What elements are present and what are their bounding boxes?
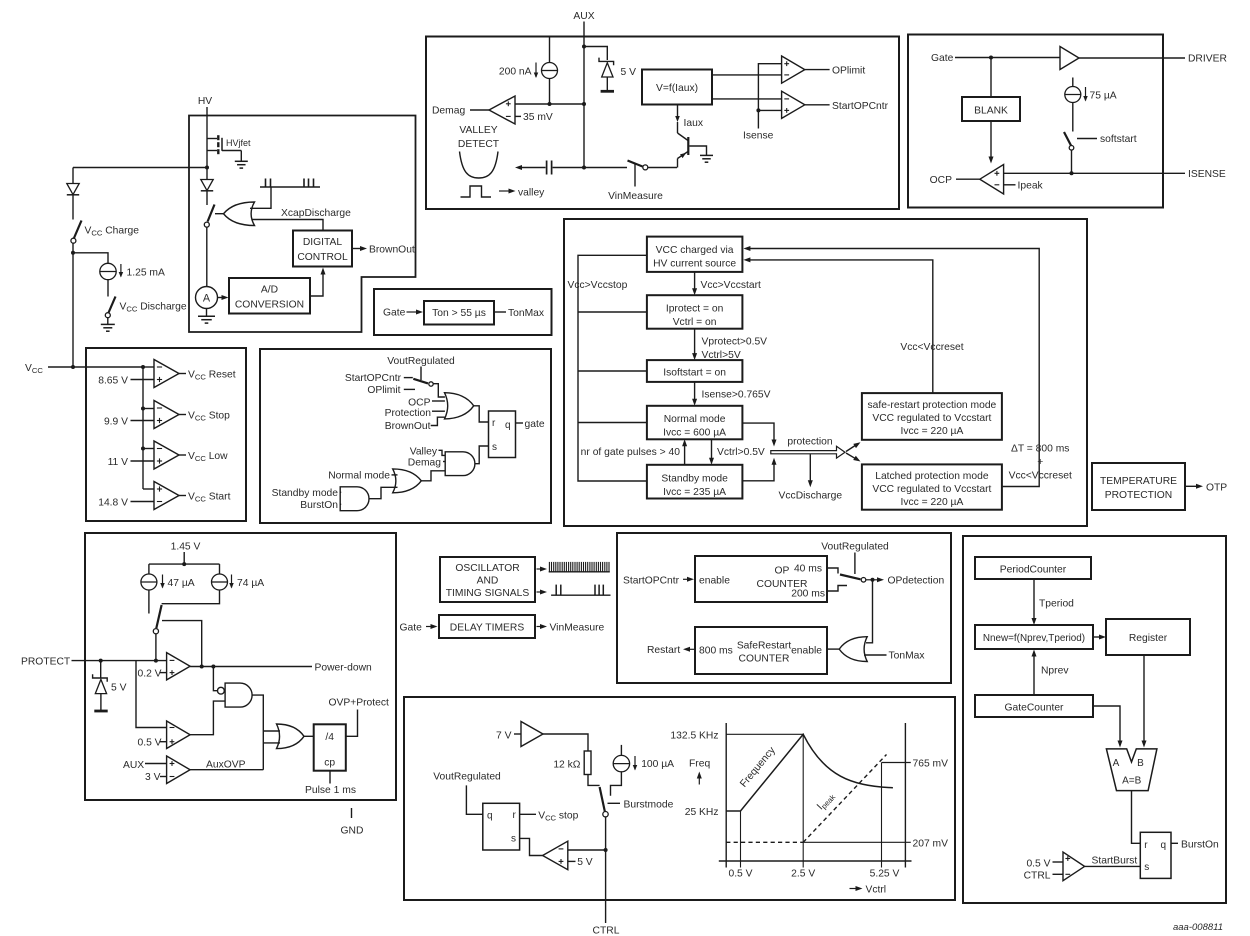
- svg-text:VccDischarge: VccDischarge: [779, 491, 843, 502]
- svg-text:Isense>0.765V: Isense>0.765V: [702, 390, 771, 401]
- svg-text:XcapDischarge: XcapDischarge: [281, 208, 351, 219]
- wire source to VCC Discharge switch: [107, 280, 109, 297]
- svg-text:Nprev: Nprev: [1041, 666, 1069, 677]
- wire pd to nand: [213, 667, 217, 691]
- wire 3V stub: [160, 776, 167, 778]
- graph axis right: [904, 723, 906, 868]
- svg-text:Protection: Protection: [385, 408, 432, 419]
- svg-text:Freq: Freq: [689, 758, 710, 769]
- wire q burston: [1171, 842, 1178, 844]
- svg-text:Pulse 1 ms: Pulse 1 ms: [305, 785, 356, 796]
- wire vinmeasure left arrow: [522, 167, 546, 169]
- svg-text:softstart: softstart: [1100, 134, 1137, 145]
- block TEMPERATURE PROTECTION: [1092, 463, 1185, 510]
- wire ammeter to A/D: [218, 297, 223, 299]
- arrow delay out: [537, 626, 542, 628]
- svg-text:ISENSE: ISENSE: [1188, 169, 1226, 180]
- wire burst switch to ctrl: [605, 817, 607, 923]
- comparator U-AuxOVP: [167, 756, 191, 784]
- resistor 12 kOhm: [584, 751, 591, 775]
- svg-text:Ivcc = 600 µA: Ivcc = 600 µA: [663, 428, 726, 439]
- comparator U-OCP (points left): [980, 165, 1004, 195]
- ground transistor base: [700, 154, 713, 156]
- node protect zener: [99, 659, 103, 663]
- svg-text:12 kΩ: 12 kΩ: [553, 760, 580, 771]
- block Nnew: [975, 625, 1093, 649]
- svg-text:Vctrl = on: Vctrl = on: [673, 317, 717, 328]
- svg-text:OCP: OCP: [930, 175, 952, 186]
- svg-text:VALLEY: VALLEY: [459, 125, 497, 136]
- or-gate U-reset: [445, 393, 474, 419]
- block Ton > 55 us: [424, 301, 494, 325]
- arrow gate to Ton: [407, 311, 418, 313]
- wire switch to ammeter: [206, 227, 208, 286]
- wire register to B: [1143, 655, 1145, 742]
- comparator U-0.5V: [167, 721, 191, 749]
- svg-text:BLANK: BLANK: [974, 106, 1008, 117]
- wire ISENSE: [1004, 172, 1185, 174]
- wire OR output to switch blade: [215, 213, 224, 215]
- svg-text:StartBurst: StartBurst: [1092, 856, 1138, 867]
- node stop tap: [141, 407, 145, 411]
- wire standby to protection: [742, 463, 774, 481]
- block DELAY TIMERS: [439, 615, 535, 638]
- arrow startop enable: [683, 578, 688, 580]
- comparator U-0.2V (power-down): [167, 653, 191, 680]
- svg-text:Burstmode: Burstmode: [624, 799, 674, 810]
- wire cap to switch: [553, 167, 627, 169]
- svg-text:A: A: [1113, 758, 1120, 769]
- current arrow 100uA: [634, 756, 636, 770]
- svg-text:AUX: AUX: [123, 760, 144, 771]
- node isense softstart: [1070, 171, 1074, 175]
- wire state3 to state4: [694, 382, 696, 401]
- wire OPlimit stub: [404, 388, 415, 390]
- svg-text:HV current source: HV current source: [653, 259, 736, 270]
- flip-flop burston latch: [1140, 832, 1171, 878]
- wire 9.9V to plus: [131, 420, 155, 422]
- svg-text:0.5 V: 0.5 V: [1026, 858, 1050, 869]
- svg-text:Isense: Isense: [743, 131, 774, 142]
- wire base to ground: [689, 146, 706, 155]
- wire state1 to state2: [694, 272, 696, 290]
- wire 7V to buffer: [514, 733, 521, 735]
- svg-text:Standby mode: Standby mode: [661, 474, 728, 485]
- svg-text:TEMPERATURE: TEMPERATURE: [1100, 476, 1177, 487]
- svg-text:q: q: [487, 811, 493, 822]
- pin GND tick: [351, 808, 353, 818]
- wire Isense to startop plus: [758, 109, 781, 111]
- svg-text:8.65 V: 8.65 V: [98, 375, 128, 386]
- svg-text:A=B: A=B: [1122, 776, 1142, 787]
- wire A=B to flipflop r: [1132, 791, 1141, 844]
- arrow gate to delay: [426, 626, 432, 628]
- svg-text:/4: /4: [325, 732, 334, 743]
- wire 0.5V comp to nand: [190, 701, 225, 735]
- wire softstart label: [1077, 138, 1097, 140]
- wire 35mV stub: [515, 115, 521, 117]
- node charge branch: [71, 251, 75, 255]
- svg-text:VinMeasure: VinMeasure: [550, 622, 605, 633]
- burst counter block outline: [963, 536, 1226, 903]
- switch VinMeasure: [628, 161, 648, 170]
- svg-text:Gate: Gate: [383, 308, 406, 319]
- label VALLEY DETECT: [458, 125, 500, 150]
- wire ovp to OR: [190, 769, 263, 771]
- AUX block outline: [426, 37, 899, 210]
- svg-text:765 mV: 765 mV: [913, 759, 949, 770]
- wire voutreg control: [854, 553, 856, 575]
- current arrow 200 nA: [535, 63, 537, 78]
- svg-text:Normal mode: Normal mode: [328, 470, 390, 481]
- OP counter block outline: [617, 533, 951, 683]
- svg-text:Register: Register: [1129, 633, 1168, 644]
- svg-text:OSCILLATOR: OSCILLATOR: [455, 563, 519, 574]
- state machine block outline: [564, 219, 1087, 526]
- svg-text:OCP: OCP: [408, 397, 430, 408]
- wire powerdown output: [190, 666, 312, 668]
- wire voutregulated to q: [466, 785, 482, 814]
- HV startup block outline: [189, 116, 416, 333]
- wire resistor to burst switch: [588, 775, 600, 786]
- VCC comparator block outline: [86, 348, 246, 521]
- state Isoftstart on: [647, 360, 743, 382]
- current source 1.25 mA: [100, 263, 116, 279]
- comparator U-StartOPCntr: [782, 91, 805, 118]
- comparator U-OPlimit: [782, 56, 805, 83]
- wire PROTECT input: [72, 660, 167, 662]
- block PeriodCounter: [975, 557, 1091, 579]
- svg-text:enable: enable: [791, 645, 822, 656]
- state safe-restart protection mode: [862, 393, 1002, 440]
- wire Protection to OR: [432, 410, 445, 412]
- node AUX comparator branch: [582, 102, 586, 106]
- graph 765mV level: [882, 762, 911, 764]
- wire XcapDischarge from digital control: [252, 220, 324, 231]
- burst mode block outline: [404, 697, 955, 900]
- protect block outline: [85, 533, 396, 800]
- svg-text:VinMeasure: VinMeasure: [608, 191, 663, 202]
- buffer U-7V: [521, 722, 543, 747]
- svg-text:A/D: A/D: [261, 285, 278, 296]
- block Register: [1106, 619, 1190, 655]
- svg-text:VCC Low: VCC Low: [188, 451, 228, 463]
- wire OCP to OR: [432, 400, 445, 402]
- node OPdetection: [871, 578, 875, 582]
- svg-text:OPlimit: OPlimit: [367, 385, 400, 396]
- block V=f(Iaux): [642, 70, 712, 105]
- wire nnew to register: [1093, 636, 1101, 638]
- or-gate U-restart (pointing left): [839, 637, 867, 662]
- svg-text:9.9 V: 9.9 V: [104, 416, 128, 427]
- svg-text:VCC charged via: VCC charged via: [656, 245, 734, 256]
- wire switch to transistor: [648, 167, 677, 169]
- wire Valley to AND: [439, 450, 446, 455]
- wire or inputs: [263, 730, 280, 732]
- svg-text:Vcc<Vccreset: Vcc<Vccreset: [1009, 471, 1072, 482]
- wire Demag output: [470, 109, 489, 111]
- wire zener branch protect: [100, 661, 102, 678]
- ammeter A: [196, 287, 218, 309]
- wire opdetect arrow: [866, 579, 878, 581]
- svg-text:StartOPCntr: StartOPCntr: [623, 575, 680, 586]
- svg-text:B: B: [1137, 758, 1144, 769]
- zener diode 5V (protect): [93, 674, 108, 711]
- svg-text:BurstOn: BurstOn: [300, 500, 338, 511]
- svg-text:Gate: Gate: [400, 622, 423, 633]
- wire switch to isense: [1071, 150, 1073, 173]
- svg-text:0.5 V: 0.5 V: [138, 737, 162, 748]
- current arrow 1.25 mA: [120, 264, 122, 277]
- switch VCC Charge: [71, 221, 82, 244]
- svg-text:q: q: [1161, 840, 1167, 851]
- node protect switch: [154, 659, 158, 663]
- svg-text:cp: cp: [324, 758, 335, 769]
- wire rail to 74uA: [219, 564, 221, 574]
- svg-text:VoutRegulated: VoutRegulated: [821, 542, 889, 553]
- svg-text:14.8 V: 14.8 V: [98, 497, 128, 508]
- svg-text:PROTECT: PROTECT: [21, 657, 71, 668]
- svg-text:DIGITAL: DIGITAL: [303, 237, 343, 248]
- block DIGITAL CONTROL: [293, 231, 352, 267]
- svg-text:SafeRestart: SafeRestart: [737, 641, 792, 652]
- svg-text:Iaux: Iaux: [684, 118, 704, 129]
- node VCC comparator bus: [141, 365, 145, 369]
- and-gate U-standby: [340, 487, 369, 511]
- wire A/D to digital control: [310, 272, 323, 296]
- wire fork to latched: [846, 453, 858, 460]
- zener diode 5V (aux): [599, 58, 614, 92]
- or-gate U-mode: [393, 469, 422, 493]
- wire stop output: [179, 414, 186, 416]
- wire state2 to state3: [694, 329, 696, 355]
- svg-text:Standby mode: Standby mode: [272, 488, 339, 499]
- wire start output: [179, 495, 186, 497]
- svg-text:safe-restart protection mode: safe-restart protection mode: [868, 400, 997, 411]
- svg-text:StartOPCntr: StartOPCntr: [832, 101, 889, 112]
- wire 0.2V stub: [160, 672, 167, 674]
- buffer U-driver: [1060, 47, 1079, 70]
- svg-text:VCC stop: VCC stop: [538, 810, 578, 822]
- wire 8.65V to plus: [131, 379, 155, 381]
- wire burstmode label: [608, 802, 621, 804]
- wire Vf out to OPlimit minus: [712, 74, 782, 76]
- wire StartOPCntr stub: [404, 377, 413, 379]
- wire BrownOut output: [352, 248, 361, 250]
- wire Standby to AND: [340, 491, 342, 493]
- svg-text:OP: OP: [775, 566, 790, 577]
- wire AUX to ovp comp: [145, 763, 167, 765]
- wire normal to protection: [742, 423, 774, 441]
- svg-text:Nnew=f(Nprev,Tperiod): Nnew=f(Nprev,Tperiod): [983, 633, 1085, 644]
- driver block outline: [908, 35, 1163, 208]
- block SafeRestart COUNTER: [695, 627, 827, 674]
- svg-text:VCC regulated to Vccstart: VCC regulated to Vccstart: [872, 484, 991, 495]
- svg-text:2.5 V: 2.5 V: [791, 869, 815, 880]
- svg-text:Power-down: Power-down: [315, 662, 373, 673]
- wire mode OR to AND: [421, 471, 445, 481]
- wire periodcounter to nnew: [1033, 579, 1035, 620]
- wire pulse detect to OR gate: [250, 187, 271, 208]
- svg-text:Ivcc = 220 µA: Ivcc = 220 µA: [900, 497, 963, 508]
- svg-text:Vcc>Vccstart: Vcc>Vccstart: [701, 280, 762, 291]
- wire blade to output node: [162, 621, 202, 667]
- svg-text:gate: gate: [525, 419, 545, 430]
- wire ctrl to 5V comp: [568, 849, 606, 851]
- protection hollow arrow: [771, 446, 845, 458]
- svg-text:35 mV: 35 mV: [523, 112, 553, 123]
- node AUX vinmeasure: [582, 166, 586, 170]
- svg-text:5 V: 5 V: [577, 857, 593, 868]
- svg-text:OVP+Protect: OVP+Protect: [329, 698, 390, 709]
- ground under ammeter: [206, 309, 208, 317]
- svg-text:enable: enable: [699, 575, 730, 586]
- svg-text:Tperiod: Tperiod: [1039, 599, 1074, 610]
- wire 1.45V feed: [183, 552, 185, 564]
- pulse train symbol (X-cap pulses): [260, 179, 320, 188]
- svg-text:+: +: [1037, 457, 1043, 468]
- state Standby mode: [647, 465, 743, 499]
- svg-text:CTRL: CTRL: [1024, 871, 1051, 882]
- wire 40ms contact: [827, 568, 838, 574]
- wire 74uA to switch contact: [162, 590, 220, 604]
- wire stop tap state4: [578, 422, 647, 424]
- wire OPlimit output: [805, 69, 830, 71]
- svg-text:VoutRegulated: VoutRegulated: [433, 772, 501, 783]
- wire 5V stub: [568, 860, 576, 862]
- graph frequency curve: [726, 734, 893, 811]
- svg-text:132.5 KHz: 132.5 KHz: [670, 730, 718, 741]
- switch mode select: [413, 379, 433, 386]
- current arrow 47uA: [162, 575, 164, 588]
- block /4 counter: [314, 724, 346, 770]
- wire OTP output: [1185, 485, 1197, 487]
- wire Iaux: [677, 105, 679, 117]
- arrow osc out 2: [537, 591, 542, 593]
- svg-text:CONVERSION: CONVERSION: [235, 300, 304, 311]
- svg-text:Demag: Demag: [432, 106, 465, 117]
- current source 100 uA: [613, 755, 629, 771]
- wire stop tap state3: [578, 370, 647, 372]
- capacitor C-valley: [547, 161, 552, 175]
- current source 47 uA: [141, 574, 157, 590]
- svg-text:25 KHz: 25 KHz: [685, 807, 719, 818]
- wire latched return: [748, 249, 1039, 487]
- svg-text:StartOPCntr: StartOPCntr: [345, 373, 402, 384]
- wire demag plus input: [515, 103, 584, 105]
- svg-text:1.45 V: 1.45 V: [171, 542, 201, 553]
- svg-text:TonMax: TonMax: [889, 651, 926, 662]
- or-gate U-xcap (pointing left): [224, 202, 255, 226]
- wire pulse out: [329, 771, 331, 784]
- svg-text:TonMax: TonMax: [508, 308, 545, 319]
- svg-text:q: q: [505, 420, 511, 431]
- wire VccDischarge: [809, 454, 811, 481]
- wire 0.5V comp minus tap: [136, 661, 167, 728]
- state VCC charged via HV current source: [647, 237, 743, 272]
- svg-text:protection: protection: [787, 437, 832, 448]
- wire Normal mode to OR: [392, 474, 398, 476]
- svg-text:valley: valley: [518, 187, 545, 198]
- svg-text:Demag: Demag: [408, 457, 441, 468]
- wire diode to switch: [206, 191, 208, 205]
- nand input bubble: [218, 687, 225, 694]
- wire BrownOut to OR: [431, 417, 445, 425]
- current arrow 74uA: [231, 575, 233, 588]
- current source 200 nA: [542, 63, 558, 79]
- comparator U-VccReset: [154, 360, 179, 388]
- waveform clock comb: [549, 562, 610, 572]
- svg-text:Gate: Gate: [931, 53, 954, 64]
- svg-text:47 µA: 47 µA: [168, 578, 195, 589]
- svg-text:5 V: 5 V: [621, 67, 637, 78]
- wire to VCC charge chain: [73, 167, 207, 169]
- wire VCC to start plus: [143, 488, 154, 490]
- graph gridline 0.5V: [740, 811, 742, 868]
- wire down to diode D2: [72, 168, 74, 184]
- wire HV to HVjfet: [206, 107, 208, 139]
- wire OVP+Protect: [346, 710, 358, 737]
- svg-text:HVjfet: HVjfet: [226, 138, 251, 148]
- wire nand to OR: [252, 695, 263, 770]
- svg-text:207 mV: 207 mV: [913, 838, 949, 849]
- diode D1 (internal): [201, 180, 213, 191]
- comparator U-VccStart: [154, 482, 179, 510]
- wire switch to OR: [433, 384, 445, 397]
- graph tick 132.5k: [726, 733, 803, 735]
- wire 200ms contact: [827, 586, 847, 592]
- svg-text:40 ms: 40 ms: [794, 564, 822, 575]
- svg-text:1.25 mA: 1.25 mA: [127, 267, 165, 278]
- svg-text:Vcc>Vccstop: Vcc>Vccstop: [568, 280, 628, 291]
- wire VCC sense bus: [142, 367, 144, 489]
- svg-text:5.25 V: 5.25 V: [870, 869, 900, 880]
- wire 0.5V stub: [160, 741, 167, 743]
- node pd 2: [211, 665, 215, 669]
- wire gate to buffer: [955, 57, 1060, 59]
- svg-text:200 nA: 200 nA: [499, 67, 532, 78]
- graph gridline 5.25V: [881, 763, 883, 868]
- graph Ipeak dashed curve: [803, 755, 886, 843]
- comparator U-Demag (points left): [489, 96, 515, 124]
- flip-flop gate latch: [489, 411, 516, 458]
- arrow valley out: [499, 190, 511, 192]
- wire or to saferestart enable: [827, 648, 839, 650]
- block OP COUNTER: [695, 556, 827, 602]
- wire standby to normal: [684, 444, 686, 465]
- wire q output: [516, 422, 524, 424]
- wire r to vcc stop: [520, 813, 536, 815]
- wire rail to 47uA: [148, 564, 150, 574]
- switch Burstmode: [600, 787, 609, 817]
- block OSCILLATOR AND TIMING SIGNALS: [440, 557, 535, 602]
- diode D2: [67, 184, 79, 195]
- switch XcapDischarge S1: [204, 205, 214, 228]
- state Latched protection mode: [862, 464, 1002, 509]
- wire Ton output: [494, 311, 506, 313]
- wire low output: [179, 454, 186, 456]
- svg-text:Vprotect>0.5V: Vprotect>0.5V: [702, 337, 768, 348]
- node pd 1: [200, 665, 204, 669]
- wire branch to discharge source: [73, 253, 108, 263]
- wire Ipeak stub: [1004, 184, 1016, 186]
- node VCC entry: [71, 365, 75, 369]
- wire standby AND to mode OR: [369, 487, 398, 498]
- svg-text:Ivcc = 235 µA: Ivcc = 235 µA: [663, 487, 726, 498]
- node gate blank tap: [989, 56, 993, 60]
- valley waveform arc: [460, 152, 499, 179]
- block GateCounter: [975, 695, 1093, 717]
